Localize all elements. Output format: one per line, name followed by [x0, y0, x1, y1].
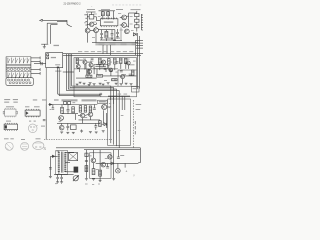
wire af mesh 2 [79, 119, 101, 121]
wire af vert 2 [105, 113, 107, 128]
transistor Q15 [91, 158, 96, 163]
wire Q21 out [94, 16, 97, 18]
wire Q column drop [120, 27, 122, 40]
wire T1 primary top [58, 151, 60, 153]
ground [102, 130, 105, 132]
ground [102, 83, 105, 85]
wire board mesh 2 [84, 64, 86, 69]
capacitor C1 [111, 33, 114, 35]
label pin notes [84, 13, 86, 16]
wire af vert 1 [102, 110, 104, 123]
node antenna ground [41, 43, 48, 45]
node pad 2 [47, 57, 49, 59]
label left lower [41, 126, 45, 127]
resistor R24 [112, 79, 117, 81]
wire matrix out 4 [31, 72, 40, 74]
label stray 2 [85, 183, 88, 186]
wire matrix rail 2 [6, 65, 31, 67]
resistor R22 [125, 58, 127, 63]
block output section [118, 69, 137, 71]
label switch legends [4, 99, 10, 100]
label legend row mid [54, 99, 59, 100]
diode D3 [104, 123, 107, 126]
wire amp left col [85, 150, 87, 179]
label board tags [77, 59, 80, 62]
ground [66, 131, 69, 133]
transistor Q11 [102, 104, 107, 109]
ground [95, 131, 98, 133]
wire af mesh [62, 113, 78, 115]
label routing notes [109, 102, 111, 105]
label pkg4 [29, 121, 31, 122]
label row top [87, 9, 95, 10]
package view U2 [25, 110, 40, 116]
transistor Q22 [90, 22, 94, 26]
block if amp [94, 65, 108, 69]
resistor R2 [107, 12, 110, 16]
transistor Q17 [108, 155, 112, 159]
wire Q4 emitter [95, 33, 97, 43]
transistor Q5 [125, 29, 130, 34]
capacitor C15 [57, 174, 59, 177]
capacitor C8 [129, 73, 132, 75]
wire matrix out 1 [31, 57, 40, 59]
wire Q13 emitter [82, 118, 84, 124]
wire dashed boundary [44, 139, 112, 141]
wire Q15 collector [92, 150, 94, 158]
wire matrix rail 3 [6, 70, 31, 72]
wire band upper [100, 39, 116, 41]
label pkg3 [6, 121, 11, 122]
ground [125, 82, 128, 84]
package view X2 [33, 142, 44, 150]
wire Q3 emitter [87, 33, 89, 43]
capacitor C19 [117, 156, 120, 158]
wire right rail h [108, 95, 130, 97]
block trap 2 [68, 102, 71, 105]
wire bus run 2 [68, 54, 116, 146]
wire matrix out 2 [31, 61, 40, 63]
transistor Q25 [126, 61, 130, 65]
wire supply bus top [56, 147, 140, 149]
capacitor C14 [49, 167, 52, 169]
wire dashed mute line [133, 100, 135, 148]
wire band drop 3 [110, 45, 112, 55]
wire mains in [50, 155, 58, 157]
transistor Q9 [102, 60, 106, 64]
wire T1 bottom lead [65, 171, 74, 173]
capacitor C16 [61, 174, 63, 177]
capacitor C2 [116, 31, 119, 33]
capacitor C7 [125, 61, 128, 63]
node bus taps [65, 71, 68, 74]
label mute 1 [136, 104, 142, 105]
wire board mesh 1 [76, 59, 83, 61]
transistor Q13 [80, 113, 84, 117]
wire matrix top rail [6, 56, 31, 58]
wire matrix right edge [30, 57, 32, 78]
label band notes [105, 38, 112, 39]
capacitor C25 [120, 70, 123, 72]
wire right drop 3 [121, 96, 123, 110]
capacitor C5 [104, 67, 107, 69]
ground [56, 181, 59, 183]
wire main bus upper [63, 53, 136, 55]
wire tuner input [34, 63, 46, 65]
wire supply bus 2 [84, 149, 140, 151]
ground [80, 130, 83, 132]
transistor Q6 [83, 60, 87, 64]
resistor R20 [99, 121, 102, 127]
resistor R21 [120, 58, 122, 63]
label af note [84, 116, 87, 119]
resistor R14 [79, 106, 82, 112]
resistor R3 [135, 14, 139, 17]
connector P1 pins row 1 [8, 79, 10, 81]
label board note [129, 64, 135, 65]
wire feeder B [51, 24, 58, 26]
resistor R12 [61, 107, 64, 113]
resistor R8 [108, 59, 111, 65]
ground [76, 83, 79, 85]
label mute 2 [136, 109, 141, 110]
capacitor C10 [93, 107, 96, 109]
wire corner run 1 [57, 68, 59, 94]
wire drop with arrow [66, 20, 68, 24]
wire IC pin13 up [112, 11, 114, 20]
transistor Q10 [121, 75, 125, 79]
resistor R7 [99, 58, 102, 64]
wire supply rail [99, 10, 116, 12]
label right rail [118, 93, 122, 96]
lamp DS8 [116, 168, 121, 173]
capacitor C26 [116, 61, 119, 63]
wire band drop 2 [106, 45, 108, 54]
transformer T1 core [60, 152, 62, 173]
ground [120, 83, 123, 85]
wire board mesh 3 [99, 64, 101, 70]
label pkg2 [25, 106, 29, 107]
capacitor C13 electrolytic [74, 167, 79, 173]
resistor R25 [87, 69, 89, 75]
ground [60, 131, 63, 133]
ground [85, 178, 88, 180]
wire matrix rail 1 [6, 63, 31, 65]
package view U3 [4, 124, 17, 130]
transistor Q14 [88, 112, 92, 116]
block amp outline [90, 153, 112, 179]
block af text [98, 100, 108, 103]
label pkg5 [4, 138, 9, 139]
ground [107, 82, 110, 84]
wire bus run 1 [67, 54, 120, 148]
connector P1 [6, 78, 33, 86]
wire board mesh 4 [76, 77, 97, 79]
block output routing [108, 99, 131, 145]
ground [100, 37, 103, 39]
capacitor C6 [110, 69, 113, 71]
package view Q20 [21, 142, 29, 150]
block T1 outline [56, 151, 68, 175]
op-amp U1 [100, 19, 118, 26]
capacitor C18 [106, 166, 109, 168]
block input filter [89, 15, 94, 19]
ground [43, 46, 46, 48]
label pkg6 [21, 139, 25, 140]
wire edge taps [136, 40, 143, 42]
label band ticks [95, 43, 97, 45]
wire T1 primary bottom [58, 172, 60, 175]
wire y40 stub [113, 29, 115, 31]
wire Q21 top [91, 12, 93, 15]
block driver [71, 125, 77, 130]
transformer T1 primary [58, 152, 60, 172]
ground [130, 83, 133, 85]
label detail notes [98, 15, 101, 18]
package view Q19 [5, 142, 13, 150]
ground [89, 130, 92, 132]
svg-text:21-150 RADIO 2: 21-150 RADIO 2 [64, 2, 82, 5]
transistor Q3 [85, 28, 90, 33]
wire to driver column [129, 12, 137, 14]
wire out stub [120, 162, 138, 164]
package view Q18 can [28, 124, 37, 133]
wire right drop 1 [110, 96, 112, 100]
transistor Q8 [88, 70, 92, 74]
block trap 1 [64, 102, 67, 105]
resistor R10 [76, 58, 78, 64]
transistor Q4 [94, 28, 99, 33]
transistor Q16 [101, 162, 106, 167]
label amp note [120, 155, 124, 156]
capacitor C17 [85, 159, 88, 161]
wire right bus A [135, 40, 137, 55]
svg-text:γ: γ [133, 173, 135, 177]
resistor R1 [101, 12, 104, 16]
ground [93, 83, 96, 85]
ground [99, 82, 102, 84]
ground [115, 82, 118, 84]
wire IC pin rail [99, 29, 113, 31]
block ceramic filter [97, 75, 103, 78]
capacitor C12 [43, 119, 46, 121]
connector P1 pins row 2 [9, 82, 11, 84]
block regulator [85, 153, 88, 157]
wire band rail [92, 42, 138, 44]
wire Q14 emitter [90, 117, 92, 120]
transformer T1 secondary [64, 152, 66, 172]
transistor Q12 [59, 116, 64, 121]
capacitor C21 [101, 30, 103, 34]
wire tuner down [45, 68, 47, 105]
label pkg1 [6, 106, 14, 107]
wire board bottom rail [74, 85, 137, 87]
switch bank S2 [7, 72, 9, 77]
wire bus run 3 [70, 54, 114, 145]
wire bus run 4 [72, 54, 111, 143]
label bus row [78, 50, 82, 53]
resistor R5 [135, 25, 139, 28]
wire Q15 emitter [92, 163, 94, 169]
wire right drop 4 [124, 96, 126, 110]
resistor R17 [92, 169, 95, 175]
wire Q3-Q4 [90, 30, 94, 32]
wire matrix rail 2b [6, 66, 31, 68]
ground [60, 181, 63, 183]
wire board stubs [78, 68, 80, 72]
ground [112, 178, 115, 180]
wire amp rail [96, 162, 120, 164]
ground [92, 178, 95, 180]
wire T1 tap [65, 161, 70, 163]
wire shield run [57, 21, 67, 23]
diode D2 [111, 162, 114, 165]
resistor R6 [105, 31, 108, 38]
label mute 3 [135, 121, 136, 124]
potentiometer VR1 [73, 176, 78, 181]
label stray 1 [55, 182, 57, 185]
resistor R19 [89, 106, 92, 112]
lamp row DS1-DS7 [7, 68, 9, 70]
resistor R23 [132, 70, 134, 75]
antenna jack J1 [41, 19, 43, 21]
wire right drop 2 [113, 96, 115, 104]
resistor R15 [84, 106, 87, 112]
wire input column [86, 13, 88, 27]
ground [49, 175, 52, 177]
wire right bus C [139, 36, 141, 89]
label tuner [51, 57, 56, 58]
capacitor C22 [52, 107, 55, 109]
wire antenna feed [43, 19, 67, 21]
wire feeder A [47, 22, 57, 24]
wire matrix left edge [5, 57, 7, 78]
resistor R9 [114, 58, 117, 64]
svg-text:+: + [125, 170, 127, 174]
wire af rail 2 [57, 122, 100, 124]
block top right tag [132, 87, 140, 93]
wire band drop 1 [102, 45, 104, 54]
ground [116, 36, 119, 38]
block main board [74, 58, 137, 97]
transistor Q7 [89, 63, 93, 67]
label faint header dots [112, 4, 114, 7]
wire tap feed [63, 71, 74, 73]
wire amp mid col [99, 150, 101, 180]
node pad 1 [47, 54, 49, 56]
wire af rail [48, 104, 97, 106]
wire corner run 2 [58, 68, 60, 96]
capacitor C4 [91, 57, 94, 59]
resistor R4 [135, 19, 139, 22]
wire supply left [49, 157, 51, 176]
wire board rail 3 [74, 68, 118, 70]
block tuner [46, 53, 63, 68]
connector CN1 [140, 14, 142, 30]
package view X1 [5, 109, 16, 116]
capacitor C20 [99, 94, 101, 96]
switch bank S1 [7, 58, 9, 63]
wire Q22 out [94, 23, 97, 25]
ground [79, 81, 82, 83]
label trap note [72, 101, 75, 104]
resistor R11 [86, 75, 92, 77]
ground [99, 179, 102, 181]
ground [89, 82, 92, 84]
ground [72, 131, 75, 133]
ground [111, 37, 114, 39]
ground [88, 83, 91, 85]
capacitor C9 [67, 109, 70, 111]
wire amp right col [113, 150, 115, 179]
wire bottom rail [54, 173, 74, 175]
transistor Q23 [76, 65, 80, 69]
wire supply bus right drop [139, 148, 141, 163]
ground [83, 82, 86, 84]
wire Q collector join [127, 15, 129, 17]
wire right bus B [137, 33, 139, 89]
label bus note [55, 64, 60, 65]
resistor R18 [99, 170, 102, 176]
diode D1 [133, 33, 136, 36]
wire matrix out 3 [31, 69, 40, 71]
transistor Q15b [59, 125, 64, 130]
resistor R16 [85, 166, 88, 172]
resistor R13 [72, 107, 75, 113]
capacitor C23 [66, 125, 69, 127]
node tuner tick [57, 67, 59, 69]
wire T1 top lead [65, 151, 74, 153]
capacitor C24 [94, 125, 97, 127]
transistor Q1 [122, 15, 127, 20]
wire main bus lower [63, 54, 136, 56]
transistor Q24 [109, 68, 113, 72]
label AE [54, 45, 60, 46]
wire af left edge [45, 105, 47, 140]
wire bus to edge [136, 53, 143, 55]
capacitor C3 [40, 62, 42, 65]
block rectifier [69, 153, 78, 161]
transistor Q2 [122, 23, 127, 28]
label pkg7 [36, 138, 41, 139]
